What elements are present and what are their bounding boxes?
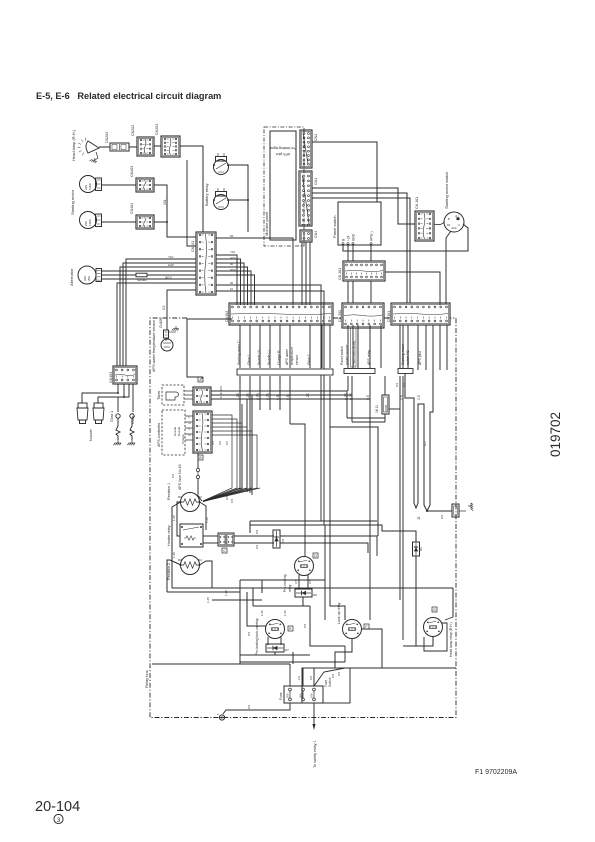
wire CN261 to CN161 harness — [385, 272, 440, 305]
chassis ground G1 — [219, 715, 224, 720]
APS fuse F16 — [197, 453, 199, 468]
wires diode D8 to pre-heating relay — [280, 536, 377, 556]
wires timer to connector — [184, 390, 193, 392]
wires contact connector right — [234, 535, 274, 537]
page circled 3 — [54, 814, 63, 823]
svg-text:35A: 35A — [87, 276, 91, 281]
wires lock up relay down — [335, 639, 352, 668]
diode D7 — [266, 644, 284, 652]
svg-text:D9: D9 — [313, 593, 317, 597]
node G head lamp relay — [432, 607, 437, 612]
wire alternator R terminal — [102, 270, 197, 272]
wires CN262 pins to harness bar — [347, 325, 349, 368]
wires CN261 to CN262 — [347, 281, 349, 303]
svg-text:R1: R1 — [178, 495, 182, 499]
wires APS connector right bundle — [203, 415, 232, 501]
svg-text:R3: R3 — [178, 558, 182, 562]
wire bus y655 — [240, 654, 310, 656]
svg-text:0.5: 0.5 — [219, 386, 223, 391]
svg-text:30: 30 — [230, 281, 234, 285]
wire fuse to safety relay — [313, 703, 315, 727]
APS controller connector CN104 — [193, 411, 212, 453]
contact connector CN109 — [218, 533, 234, 546]
starting motor switch SW2 — [444, 212, 464, 232]
svg-text:CN 161: CN 161 — [415, 197, 419, 209]
svg-text:3: 3 — [57, 817, 61, 824]
wire M2 to CN404 — [102, 221, 137, 223]
wire head lamp relay loop — [424, 623, 447, 651]
svg-text:R2: R2 — [198, 495, 202, 499]
svg-text:Resistor 1: Resistor 1 — [167, 483, 171, 500]
svg-text:+24: +24 — [346, 235, 350, 241]
svg-text:E-5, E-6 Related electrical: E-5, E-6 Related electrical circuit diag… — [36, 91, 221, 101]
svg-text:20A: 20A — [286, 693, 290, 698]
battery relay BR1 — [214, 160, 229, 175]
svg-text:APS pilot: APS pilot — [276, 152, 290, 156]
harness bar CN262 — [344, 369, 375, 374]
svg-text:0.5: 0.5 — [417, 395, 421, 400]
starting motor M1 — [80, 176, 97, 193]
svg-text:0.5: 0.5 — [337, 671, 341, 676]
wire CN103 to glow 2 — [132, 384, 134, 412]
svg-text:0.5: 0.5 — [171, 473, 175, 478]
svg-text:G20: G20 — [230, 256, 236, 260]
svg-text:Nozzle: Nozzle — [89, 429, 93, 441]
svg-text:To safety relay 1: To safety relay 1 — [313, 740, 317, 768]
wire CN103 to glow 1 — [118, 384, 129, 412]
panel switch SW1 — [338, 202, 381, 245]
svg-text:20: 20 — [230, 234, 234, 238]
svg-text:APS controller: APS controller — [157, 422, 161, 447]
svg-text:Pre-heating back-on relay: Pre-heating back-on relay — [255, 618, 259, 655]
wire 1K resistor feed — [384, 376, 386, 395]
svg-text:APS(-): APS(-) — [369, 231, 373, 241]
svg-text:CN404: CN404 — [130, 203, 134, 214]
wire loop feed x325 — [324, 525, 326, 580]
wires CN4 down to CN102 — [301, 242, 303, 305]
wire lockup feed — [330, 600, 345, 620]
svg-text:Monitor panel: Monitor panel — [264, 212, 269, 236]
svg-text:Heater relay: Heater relay — [167, 525, 171, 546]
svg-text:CN103: CN103 — [109, 372, 113, 383]
svg-text:Relay box: Relay box — [144, 670, 149, 688]
wire battery relays — [228, 165, 248, 232]
wire resistor2 left — [177, 547, 181, 565]
svg-text:0.5: 0.5 — [247, 631, 251, 636]
svg-text:Head lamp (R.H.): Head lamp (R.H.) — [71, 129, 76, 161]
wire fuse bottom to ground — [223, 703, 290, 714]
diode D8 — [273, 530, 280, 548]
svg-text:Panel switch: Panel switch — [340, 346, 344, 365]
svg-text:Head lamp relay (R.H.): Head lamp relay (R.H.) — [449, 622, 453, 657]
wire lower vertical x262 — [261, 580, 263, 593]
svg-text:Resistor 2: Resistor 2 — [167, 563, 171, 580]
svg-text:GND: GND — [351, 233, 355, 241]
fuse 20A no1 — [289, 688, 292, 691]
svg-text:Battery relay: Battery relay — [204, 184, 209, 206]
diode D6 — [413, 542, 420, 556]
nozzle N1 — [78, 403, 87, 408]
svg-text:0.5: 0.5 — [225, 441, 229, 445]
resistor R3-R4 — [181, 556, 200, 575]
svg-text:B: B — [448, 217, 450, 221]
svg-text:D6: D6 — [419, 547, 423, 551]
twisted cable 2 — [421, 370, 433, 511]
svg-text:2.0: 2.0 — [297, 675, 301, 680]
svg-text:40: 40 — [230, 262, 234, 266]
svg-text:1.25: 1.25 — [224, 590, 228, 596]
wire 1K resistor right — [389, 408, 400, 410]
monitor panel enclosure — [264, 127, 304, 246]
node C contact connector — [222, 548, 227, 553]
connector CN1 — [299, 171, 312, 226]
svg-text:1.25: 1.25 — [172, 515, 176, 521]
svg-text:0.5: 0.5 — [255, 544, 259, 549]
svg-text:CN2: CN2 — [314, 134, 318, 141]
wires timer connector right — [211, 391, 347, 418]
wire D6 down — [415, 556, 417, 646]
wires heater relay to contact connector — [203, 535, 218, 537]
svg-text:Lock up relay: Lock up relay — [337, 602, 341, 624]
svg-text:0.5: 0.5 — [219, 390, 223, 395]
wire bundle CN101 right to CN102 — [216, 238, 293, 305]
svg-text:sensor: sensor — [295, 354, 299, 365]
svg-text:G: G — [433, 608, 436, 612]
timer unit — [162, 385, 184, 405]
svg-text:1.25: 1.25 — [205, 517, 209, 523]
ground (head lamp) — [95, 152, 98, 160]
ground (CN106) — [169, 331, 177, 333]
wires back-on relay to diode D7 — [267, 637, 269, 645]
pre-heating back-on relay RY3 — [266, 620, 285, 639]
svg-text:CN161: CN161 — [387, 311, 391, 322]
timer connector CN105 — [193, 387, 211, 405]
wires into fuses — [289, 664, 291, 686]
ground (glow 2) — [127, 440, 135, 445]
svg-text:CN101: CN101 — [191, 241, 195, 252]
svg-text:20-104: 20-104 — [35, 799, 80, 815]
wire resistor1 left down — [177, 502, 181, 536]
node A timer — [198, 377, 203, 382]
svg-text:0.5: 0.5 — [395, 382, 399, 387]
svg-text:Y10: Y10 — [168, 255, 174, 259]
diagonal convergence to resistor R2 — [203, 488, 240, 502]
svg-text:0.5: 0.5 — [303, 623, 307, 628]
svg-text:1K Ω: 1K Ω — [375, 405, 379, 413]
svg-text:CN201: CN201 — [155, 124, 159, 135]
svg-text:Starting motor switch: Starting motor switch — [444, 172, 449, 209]
ground (glow 1) — [113, 440, 121, 445]
svg-text:0.5: 0.5 — [309, 675, 313, 680]
harness bar CN161 — [398, 369, 413, 374]
svg-text:CN403: CN403 — [130, 166, 134, 177]
svg-text:0.5: 0.5 — [423, 441, 427, 446]
wires APS controller to connector — [185, 415, 193, 417]
water temp sensor RT1 — [161, 339, 173, 351]
svg-text:APS fuse No.16: APS fuse No.16 — [178, 464, 182, 490]
fuse 10A — [313, 688, 316, 691]
svg-text:temperature: temperature — [290, 347, 294, 365]
node E back-on relay — [288, 626, 293, 631]
svg-text:1.25: 1.25 — [260, 610, 264, 616]
APS controller unit — [162, 410, 185, 455]
svg-text:R1: R1 — [447, 223, 451, 227]
svg-text:CN102: CN102 — [225, 311, 229, 322]
svg-text:1.25: 1.25 — [172, 552, 176, 558]
wire CN201 bottom to CN101 left — [187, 160, 196, 246]
svg-text:W10: W10 — [230, 268, 236, 272]
svg-text:10: 10 — [230, 287, 234, 291]
wires panel switch to CN261 — [347, 245, 349, 261]
svg-text:CN 262: CN 262 — [338, 310, 342, 322]
wires pre-heating relay down — [298, 575, 300, 589]
wire CN161 to switch — [434, 222, 444, 225]
svg-text:11kW: 11kW — [88, 183, 92, 190]
svg-text:D7: D7 — [285, 648, 289, 652]
heater relay RY1 — [180, 524, 203, 547]
svg-text:J2: J2 — [417, 516, 421, 520]
wire CN201 to CN101 — [180, 146, 203, 232]
svg-text:Switch: Switch — [328, 677, 332, 687]
wire M1 to CN403 — [102, 184, 137, 186]
fuse 20A no2 — [302, 688, 305, 691]
svg-text:0.5: 0.5 — [440, 514, 444, 519]
svg-text:0.5: 0.5 — [162, 305, 166, 310]
resistor R1-R2 — [181, 493, 200, 512]
svg-text:11kW: 11kW — [88, 219, 92, 226]
wire lock up relay right — [362, 629, 383, 668]
svg-text:Pre-heating signal: Pre-heating signal — [269, 146, 297, 150]
wire CN202 to CN201 — [154, 145, 161, 147]
wire head lamp relay from top — [452, 588, 454, 617]
svg-text:C: C — [223, 549, 226, 553]
wire fuse switch diagonal — [314, 668, 456, 686]
wire bus lower horizontals — [172, 587, 453, 589]
starting motor M2 — [80, 212, 97, 229]
wire CN2 to panel switch — [312, 142, 377, 202]
head lamp HL1 — [86, 141, 99, 153]
nozzle N2 — [94, 403, 103, 408]
svg-text:CN4: CN4 — [314, 231, 318, 238]
wire bundle CN102 down to relay area — [239, 376, 241, 490]
head lamp relay RY5 — [424, 618, 443, 637]
fuse box enclosure — [302, 668, 350, 703]
wire CN1 to CN161 harness a — [312, 193, 407, 303]
fuse box — [284, 686, 323, 703]
svg-text:CN1: CN1 — [314, 178, 318, 185]
wire panel switch B to starting motor switch — [343, 224, 468, 251]
svg-text:CN 261: CN 261 — [338, 268, 342, 280]
wire bus y427 — [330, 427, 378, 536]
twisted cable 1 — [405, 373, 421, 508]
wire CN103 to nozzle 1 — [82, 384, 118, 403]
svg-text:APS water: APS water — [285, 348, 289, 365]
relay box boundary — [150, 318, 456, 718]
wires CN161 pins to harness bar — [399, 325, 401, 368]
node B APS — [198, 455, 203, 460]
wire sensor to CN101 — [167, 290, 196, 330]
svg-text:H: H — [189, 421, 191, 425]
wire bus y664 — [152, 663, 290, 665]
boxed label panel switch ON — [351, 328, 357, 367]
wire head lamp to CN203 — [99, 146, 110, 148]
svg-text:Charge: Charge — [181, 434, 185, 444]
wire rect loop back-on relay — [240, 580, 325, 620]
svg-text:F1 9702209A: F1 9702209A — [475, 769, 517, 776]
svg-text:Starting motor: Starting motor — [70, 189, 75, 215]
wire CN102 left pin to timer connector — [187, 319, 232, 379]
svg-text:0.5: 0.5 — [230, 498, 234, 503]
svg-text:Pre-heating: Pre-heating — [283, 574, 287, 592]
wire bus y662 — [240, 661, 345, 663]
svg-text:Timer: Timer — [157, 390, 161, 400]
svg-text:0.5: 0.5 — [281, 538, 285, 543]
wire CN161h verticals down long — [399, 376, 401, 600]
svg-text:G20: G20 — [168, 263, 174, 267]
wire preheating relay D9 down — [302, 597, 304, 606]
svg-text:ACC: ACC — [451, 226, 457, 230]
wire head lamp relay down — [403, 637, 433, 646]
svg-text:Glow 1: Glow 1 — [110, 411, 114, 422]
svg-text:019702: 019702 — [548, 412, 563, 457]
wire switch down to CN161 harness — [446, 231, 451, 304]
pre-heating relay RY2 — [295, 557, 314, 576]
wire bus y525 — [250, 525, 416, 542]
wire D7 down to bus — [274, 652, 276, 655]
svg-text:#10M: #10M — [384, 404, 388, 412]
svg-text:0.5: 0.5 — [211, 441, 215, 445]
wire CN262 verticals down — [347, 376, 349, 391]
svg-text:C: C — [458, 223, 460, 227]
harness bar CN102 — [237, 369, 333, 375]
lock up relay RY4 — [343, 620, 362, 639]
wire CN262 column long vertical — [369, 376, 371, 620]
wire resistor2 right down — [200, 561, 213, 588]
svg-text:20A: 20A — [299, 693, 303, 698]
node D pre-heating relay — [313, 553, 318, 558]
diode D9 — [295, 589, 312, 597]
svg-text:0.5: 0.5 — [218, 441, 222, 445]
wire resistor1 right to heater relay — [200, 502, 207, 530]
svg-text:R4: R4 — [198, 558, 202, 562]
svg-text:Panel switch: Panel switch — [332, 216, 337, 238]
noise filter NF1 — [427, 510, 452, 512]
svg-text:1.25: 1.25 — [206, 597, 210, 603]
wire CN403/CN404 to CN101 — [154, 185, 196, 237]
connector CN4 — [300, 230, 312, 242]
svg-text:Alternator: Alternator — [69, 268, 74, 286]
wire glow2 column to pre-heating relay — [290, 424, 305, 556]
svg-text:0.5: 0.5 — [219, 394, 223, 399]
resistor SD1kohm — [136, 273, 147, 277]
wire CN1 to CN161 harness b — [312, 198, 410, 303]
alternator G1 — [78, 266, 96, 284]
svg-text:B: B — [341, 239, 345, 241]
svg-text:CN202: CN202 — [131, 125, 135, 136]
svg-text:05L: 05L — [163, 199, 167, 205]
wire bundle CN101 left to CN103 — [126, 259, 196, 366]
svg-text:0.5: 0.5 — [331, 673, 335, 678]
wire CN1 to CN161 connector — [312, 188, 415, 224]
wire CN103 to nozzle 2 — [98, 384, 124, 403]
svg-text:0.5: 0.5 — [255, 529, 259, 534]
ground (noise filter) — [459, 510, 466, 512]
wire resistor1 to lower bus — [172, 502, 181, 588]
svg-text:APS water temperature sensor: APS water temperature sensor — [152, 319, 156, 372]
svg-text:D: D — [314, 554, 317, 558]
svg-text:Y10: Y10 — [230, 250, 235, 254]
svg-text:10A: 10A — [310, 693, 314, 698]
svg-text:0.5: 0.5 — [247, 704, 251, 709]
connector CN2 — [300, 130, 312, 168]
node F lock up relay — [364, 624, 369, 629]
svg-text:CN106: CN106 — [159, 318, 163, 328]
svg-text:1.25: 1.25 — [283, 610, 287, 616]
wire CN203 to CN202 — [129, 146, 137, 148]
battery relay BR2 — [214, 195, 229, 210]
svg-text:Fuse: Fuse — [279, 692, 283, 700]
svg-text:CN203: CN203 — [105, 132, 109, 143]
wires CN102 pins to harness bar — [239, 325, 241, 368]
wire alternator to CN101 bottom — [102, 278, 197, 280]
wire bundle mid verticals — [241, 404, 243, 490]
svg-text:APS pilot: APS pilot — [418, 351, 422, 365]
